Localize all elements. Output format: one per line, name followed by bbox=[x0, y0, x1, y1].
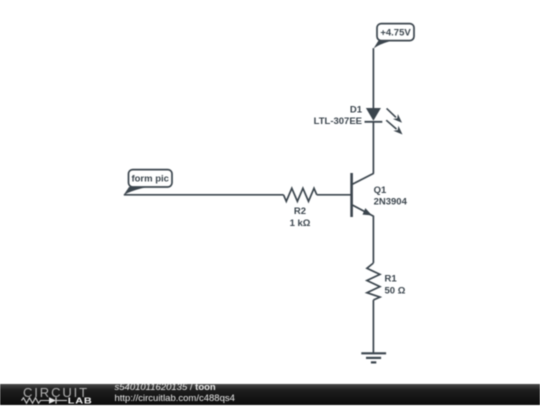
resistor R1 bbox=[367, 263, 380, 300]
wire from +4.75V to D1 anode bbox=[372, 48, 374, 108]
footer bar bbox=[0, 384, 540, 405]
wire from R1 to ground bbox=[372, 300, 374, 353]
svg-text:50 Ω: 50 Ω bbox=[385, 285, 406, 296]
LED light emission arrow 2 bbox=[386, 120, 402, 134]
svg-text:1 kΩ: 1 kΩ bbox=[290, 218, 311, 229]
power flag +4.75V bbox=[373, 24, 414, 49]
footer text line 2 bbox=[115, 394, 235, 404]
wire from flag to R2 bbox=[124, 194, 284, 196]
LED light emission arrow 1 bbox=[387, 108, 402, 122]
wire from Q1 emitter to R1 bbox=[372, 216, 374, 263]
wire from R2 to Q1 base bbox=[317, 194, 352, 196]
resistor R2 bbox=[284, 188, 317, 201]
svg-text:Q1: Q1 bbox=[374, 185, 387, 196]
CircuitLab logo bbox=[0, 384, 110, 405]
svg-text:LAB: LAB bbox=[68, 397, 93, 405]
label R2 / 1 kΩ bbox=[290, 206, 311, 229]
LED D1 bbox=[365, 108, 383, 122]
svg-text:D1: D1 bbox=[350, 105, 363, 116]
label R1 / 50 Ω bbox=[385, 274, 406, 297]
label Q1 / 2N3904 bbox=[374, 185, 408, 207]
label D1 / LTL-307EE bbox=[314, 105, 363, 127]
ground bbox=[361, 353, 386, 362]
svg-text:R2: R2 bbox=[294, 206, 306, 217]
svg-text:LTL-307EE: LTL-307EE bbox=[314, 116, 362, 127]
svg-text:2N3904: 2N3904 bbox=[374, 196, 408, 207]
svg-text:R1: R1 bbox=[385, 274, 398, 285]
transistor Q1 (NPN) bbox=[352, 173, 374, 217]
svg-text:form pic: form pic bbox=[131, 174, 168, 185]
svg-text:+4.75V: +4.75V bbox=[380, 28, 411, 39]
wire from D1 cathode to Q1 collector bbox=[372, 122, 374, 174]
footer text line 1 bbox=[115, 383, 216, 393]
flag "form pic" bbox=[124, 170, 172, 195]
